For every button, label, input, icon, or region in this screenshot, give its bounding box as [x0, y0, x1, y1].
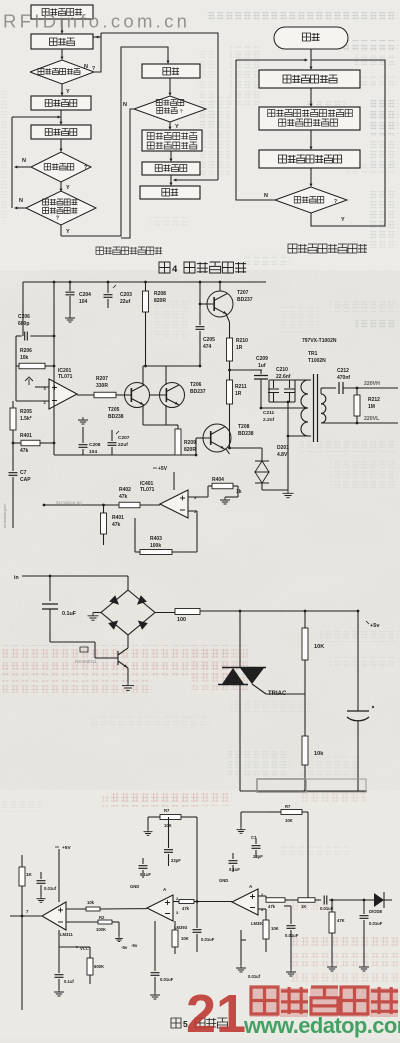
- transformer TR1 T1002N: [301, 338, 337, 442]
- svg-text:47k: 47k: [268, 904, 276, 909]
- label -5v stage2: [131, 943, 138, 948]
- stage3 central vertical: [307, 812, 309, 899]
- wire op-amp2 output left: [159, 504, 161, 505]
- svg-text:R7: R7: [164, 808, 170, 813]
- svg-text:1.5k*: 1.5k*: [20, 416, 32, 422]
- svg-text:0.1uF: 0.1uF: [140, 872, 151, 877]
- capacitor 0.01uF stage2 bottom: [151, 921, 174, 992]
- decision: key pressed?: [30, 60, 95, 84]
- wire N loop: [236, 60, 275, 200]
- capacitor electrolytic right: [347, 611, 374, 791]
- resistor 10K vertical stage2: [172, 921, 189, 954]
- svg-text:N: N: [123, 102, 127, 108]
- svg-text:104: 104: [89, 449, 97, 455]
- resistor R401b 47k: [101, 505, 125, 545]
- svg-text:TR1: TR1: [308, 351, 318, 357]
- flow box: close interrupt: [31, 34, 93, 49]
- svg-text:+5V: +5V: [62, 845, 71, 851]
- wire: [170, 151, 173, 162]
- capacitor C206 680p: [16, 314, 54, 341]
- svg-text:?: ?: [92, 66, 95, 72]
- svg-text:R210: R210: [236, 338, 248, 344]
- wire input top: [22, 575, 128, 590]
- wire T207 base branch: [199, 282, 207, 325]
- svg-text:220VL: 220VL: [364, 416, 380, 422]
- svg-text:820R: 820R: [184, 447, 196, 453]
- svg-text:10k: 10k: [87, 900, 95, 905]
- zener D201 4.8V bidirectional: [230, 445, 290, 490]
- resistor R208 820R: [143, 282, 167, 367]
- wire Y loop: [311, 60, 385, 226]
- svg-text:10k: 10k: [314, 751, 324, 757]
- transistor T207 BD237: [207, 290, 253, 317]
- svg-text:R7: R7: [285, 804, 291, 809]
- series capacitor 0.01uF: [320, 896, 374, 912]
- wire: [60, 139, 63, 152]
- svg-text:C206: C206: [18, 314, 30, 320]
- capacitor 0.01uF right: [360, 900, 383, 964]
- capacitor C209 1uf: [254, 356, 268, 409]
- svg-text:+5V: +5V: [158, 466, 168, 472]
- svg-text:R209: R209: [184, 440, 196, 446]
- svg-text:DIODE: DIODE: [369, 909, 382, 914]
- svg-text:600K: 600K: [94, 964, 104, 969]
- ground stage2 bottom: [150, 992, 160, 999]
- wire Y down: [60, 182, 71, 192]
- label GND stage3: [219, 878, 228, 883]
- resistor R210 1R: [226, 314, 248, 380]
- svg-text:10K: 10K: [271, 926, 279, 931]
- svg-text:R208: R208: [154, 291, 166, 297]
- resistor R401 47k: [12, 433, 54, 454]
- right flowchart (transponder software): [236, 27, 385, 226]
- resistor R2 100K: [66, 915, 119, 936]
- left return rail: [11, 117, 13, 208]
- svg-text:C210: C210: [276, 367, 288, 373]
- wire base network: [50, 642, 118, 658]
- svg-text:1K: 1K: [301, 904, 306, 909]
- wire Y down: [61, 84, 71, 96]
- wire N loop to box2: [84, 33, 101, 72]
- svg-text:100: 100: [177, 617, 186, 623]
- wire bottom bus: [240, 790, 367, 793]
- wire pin2 line stage3: [258, 908, 266, 910]
- wire left vertical: [239, 611, 241, 791]
- capacitor 0.1uF input: [42, 576, 77, 642]
- ground stage1 bottom: [54, 989, 64, 996]
- svg-text:Y: Y: [66, 185, 70, 191]
- svg-text:1M: 1M: [368, 404, 375, 410]
- svg-text:RxHEB011: RxHEB011: [75, 659, 97, 664]
- svg-text:GND: GND: [219, 878, 228, 883]
- svg-text:R2: R2: [99, 915, 105, 920]
- decision: done transmitting?: [31, 152, 91, 182]
- svg-text:0.1uF: 0.1uF: [229, 867, 240, 872]
- left margin tiny vertical text: [3, 503, 7, 528]
- left vertical rail: [21, 855, 23, 1010]
- wire N loop down: [121, 102, 134, 238]
- flow box: output display: [142, 162, 200, 175]
- svg-text:R205: R205: [20, 409, 32, 415]
- decision: done transmitting?: [275, 187, 347, 213]
- svg-text:4.8V: 4.8V: [277, 452, 288, 458]
- label +5v: [366, 621, 380, 629]
- watermark www.edatop.com green: [243, 1013, 400, 1038]
- terminator: start: [274, 27, 348, 49]
- caption: transponder software flowchart: [288, 244, 367, 253]
- svg-text:22uf: 22uf: [120, 299, 131, 305]
- svg-text:N: N: [19, 198, 23, 204]
- svg-text:shandangxin: shandangxin: [3, 503, 7, 528]
- svg-text:?: ?: [84, 165, 87, 171]
- flow box: transmit code bitwise: [259, 150, 360, 168]
- wire output node to C209: [230, 369, 263, 371]
- svg-text:-5v: -5v: [121, 945, 128, 950]
- wire T208 emitter down: [226, 429, 231, 454]
- svg-text:RFIDinfo.com.cn: RFIDinfo.com.cn: [3, 11, 190, 32]
- wire lower horizontal bus: [54, 454, 196, 456]
- ground at R2: [115, 936, 128, 950]
- ground at R7b: [237, 827, 246, 833]
- resistor 47K vertical: [329, 900, 345, 964]
- transistor T208 BD238: [203, 424, 254, 452]
- caption: reader software flowchart: [96, 247, 162, 254]
- svg-text:47k: 47k: [20, 448, 29, 454]
- capacitor 0.01uf at U1: [37, 872, 57, 896]
- svg-text:47k: 47k: [112, 522, 121, 528]
- wire: [310, 168, 313, 187]
- svg-text:T207: T207: [237, 290, 249, 296]
- svg-text:470nf: 470nf: [337, 375, 350, 381]
- bridge rectifier: [101, 590, 155, 635]
- svg-text:?: ?: [334, 199, 337, 205]
- svg-text:R212: R212: [368, 397, 380, 403]
- capacitor C210 22.6nf parallel pair: [268, 367, 311, 403]
- svg-text:T205: T205: [108, 407, 120, 413]
- wire: [310, 88, 313, 107]
- decision: parity consistent?: [26, 191, 96, 225]
- flow box: init: [31, 5, 93, 19]
- wire Y bottom to store-branch: [61, 47, 170, 236]
- svg-text:C211: C211: [263, 410, 275, 416]
- resistor R211 1R: [227, 380, 247, 429]
- svg-text:LM311: LM311: [60, 932, 73, 937]
- circuit3 comparator chain: [10, 779, 392, 1010]
- right top loop wire: [101, 33, 218, 180]
- bleed table boxes above circuit3: [257, 779, 366, 792]
- resistor R205 1.5k: [10, 401, 32, 443]
- svg-text:0.01uF: 0.01uF: [201, 937, 215, 942]
- resistor R404 1k: [188, 477, 242, 497]
- svg-text:BD238: BD238: [108, 414, 124, 420]
- label TRIAC: [268, 691, 287, 697]
- svg-text:330R: 330R: [96, 383, 108, 389]
- svg-text:R207: R207: [96, 376, 108, 382]
- svg-text:C212: C212: [337, 368, 349, 374]
- stage3 bottom left ground: [236, 930, 261, 979]
- svg-text:T208: T208: [238, 424, 250, 430]
- svg-text:0.01uf: 0.01uf: [44, 886, 57, 891]
- resistor R207 330R: [77, 376, 125, 398]
- circuit1 main schematic: [3, 281, 398, 555]
- wire N to left rail: [14, 198, 26, 210]
- svg-text:LM393: LM393: [174, 925, 188, 930]
- label +5V stage1: [55, 845, 71, 851]
- wire U1 bottom VCC: [59, 930, 89, 951]
- TRIAC symbol: [218, 668, 305, 737]
- wire left drop: [22, 282, 24, 336]
- svg-text:Y: Y: [66, 89, 70, 95]
- svg-text:BD237: BD237: [237, 297, 253, 303]
- svg-text:Y: Y: [66, 229, 70, 235]
- wire N to left rail: [14, 158, 31, 169]
- flow box: store: [142, 64, 200, 78]
- resistor R209 820R: [166, 425, 196, 456]
- svg-text:T1002N: T1002N: [308, 358, 326, 364]
- svg-text:N: N: [264, 193, 268, 199]
- left flowchart (reader software): [12, 5, 218, 238]
- svg-text:T206: T206: [190, 382, 202, 388]
- svg-text:C204: C204: [79, 292, 91, 298]
- ground main: [283, 490, 294, 498]
- wire mid vertical bus: [53, 282, 56, 455]
- stage2 central vertical: [196, 817, 199, 903]
- ground stage3 mid: [286, 969, 296, 976]
- svg-text:100k: 100k: [150, 543, 161, 549]
- svg-text:4: 4: [172, 264, 178, 275]
- svg-text:0.01uF: 0.01uF: [369, 921, 383, 926]
- wire U2 output left: [100, 908, 147, 910]
- svg-text:TRIAC: TRIAC: [268, 691, 287, 697]
- watermark red CJK characters: [250, 987, 398, 1017]
- resistor 10K upper: [302, 611, 324, 694]
- svg-text:BD238: BD238: [238, 431, 254, 437]
- resistor R212 1M: [354, 388, 380, 423]
- svg-text:C209: C209: [256, 356, 268, 362]
- capacitor C7 CAP: [9, 443, 32, 528]
- wire Y down: [169, 122, 180, 130]
- ground small: [37, 896, 46, 902]
- svg-text:680p: 680p: [18, 321, 29, 327]
- wire: [61, 19, 64, 34]
- svg-text:47k: 47k: [182, 906, 190, 911]
- ground at R7: [144, 829, 153, 835]
- capacitor 0.01uF stage2 mid: [193, 902, 215, 953]
- ground at R404: [220, 497, 238, 504]
- svg-text:1R: 1R: [236, 345, 243, 351]
- svg-text:21: 21: [186, 984, 246, 1038]
- caption fig5: [171, 1018, 227, 1029]
- flow box: read keyboard state: [259, 70, 360, 88]
- center tap wire and C211 label: [261, 408, 308, 423]
- svg-text:1uf: 1uf: [258, 363, 266, 369]
- capacitor 0.1uf bottom: [55, 947, 75, 989]
- svg-text:100K: 100K: [96, 927, 106, 932]
- capacitor 0.1uF stage2: [139, 858, 152, 878]
- svg-text:C7: C7: [20, 470, 27, 476]
- svg-text:R206: R206: [20, 348, 32, 354]
- wire: [61, 49, 64, 60]
- ground under transistor: [122, 682, 134, 690]
- resistor R206 10k: [16, 348, 54, 369]
- svg-text:Y: Y: [175, 124, 179, 130]
- svg-text:CAP: CAP: [20, 477, 31, 483]
- offset trim symbol on pin3: [25, 377, 33, 385]
- svg-text:820R: 820R: [154, 298, 166, 304]
- svg-text:R401: R401: [20, 433, 32, 439]
- ground at bridge left: [88, 613, 102, 621]
- svg-text:+5v: +5v: [370, 623, 380, 629]
- flow box: receive code: [31, 125, 91, 139]
- svg-text:2.2nf: 2.2nf: [263, 417, 275, 423]
- wire output left: [10, 915, 42, 918]
- diode DIODE: [369, 892, 392, 914]
- gray stamp text: [56, 500, 82, 505]
- svg-text:D201: D201: [277, 445, 289, 451]
- svg-text:0.1uF: 0.1uF: [62, 611, 77, 617]
- svg-text:10K: 10K: [285, 818, 293, 823]
- svg-text:R402: R402: [119, 487, 131, 493]
- wire T207 collector to rail: [219, 282, 221, 291]
- svg-text:N: N: [22, 158, 26, 164]
- svg-text:47k: 47k: [119, 494, 128, 500]
- svg-text:220VH: 220VH: [364, 381, 380, 387]
- svg-text:R211: R211: [235, 384, 247, 390]
- stage3 resistor R7b 10K: [241, 804, 308, 827]
- svg-text:47K: 47K: [337, 918, 345, 923]
- svg-text:C203: C203: [120, 292, 132, 298]
- flow box: encode state with parity flag: [259, 107, 360, 130]
- op-amp U3 LM393: [232, 884, 265, 926]
- svg-text:GND: GND: [130, 884, 139, 889]
- svg-text:22uf: 22uf: [118, 442, 128, 448]
- label GND: [130, 884, 139, 889]
- svg-text:1K: 1K: [26, 872, 33, 877]
- watermark RFIDinfo.com.cn: [3, 11, 190, 32]
- wire with left merge: [12, 110, 63, 125]
- circuit2 TRIAC schematic: [14, 575, 380, 793]
- svg-text:0.01uF: 0.01uF: [160, 977, 174, 982]
- svg-text:10K: 10K: [314, 644, 324, 650]
- svg-text:?: ?: [180, 109, 183, 114]
- feedback wires around IC201: [16, 335, 55, 401]
- wire with merge: [236, 49, 313, 70]
- svg-text:-5v: -5v: [131, 943, 138, 948]
- resistor 1K stage3: [298, 898, 321, 909]
- grounds right pair: [327, 964, 369, 971]
- svg-text:R404: R404: [212, 477, 224, 483]
- capacitor 0.1uF stage3: [229, 853, 241, 872]
- wire: [310, 130, 313, 150]
- resistor 600K: [59, 947, 104, 984]
- transistor T205 BD238: [108, 383, 150, 421]
- svg-text:?: ?: [56, 216, 59, 222]
- resistor 47k stage2: [173, 900, 232, 912]
- wire top supply rail: [23, 281, 266, 283]
- stage2 resistor R7 10K: [148, 808, 197, 829]
- capacitor 0.01uF stage3 mid: [284, 906, 299, 969]
- svg-text:10K: 10K: [164, 823, 172, 828]
- watermark 21 red: [186, 984, 246, 1043]
- svg-text:TL071: TL071: [58, 374, 73, 380]
- resistor R403 100k: [135, 511, 197, 555]
- svg-text:22pF: 22pF: [253, 854, 263, 859]
- ground below C204: [65, 315, 75, 322]
- capacitor C208 104: [79, 427, 101, 455]
- wire to zener and ground bus: [287, 402, 308, 490]
- capacitor C7 22pF stage3: [251, 835, 263, 859]
- resistor 100: [155, 609, 200, 624]
- flow box: compare three numbers: [142, 130, 202, 151]
- svg-text:www.edatop.com: www.edatop.com: [243, 1013, 400, 1038]
- svg-text:10K: 10K: [181, 936, 189, 941]
- svg-text:797VX-T1002N: 797VX-T1002N: [302, 338, 337, 344]
- svg-text:22pF: 22pF: [171, 858, 181, 863]
- svg-text:C208: C208: [89, 442, 101, 448]
- svg-text:C207: C207: [118, 435, 130, 441]
- svg-text:51mabou-ag: 51mabou-ag: [56, 500, 82, 505]
- op-amp U2 LM393: [147, 887, 188, 930]
- wire top bus of triac section: [200, 610, 359, 613]
- resistor R402 47k: [43, 487, 160, 508]
- resistor 10K vertical stage3: [263, 909, 279, 952]
- wire T208 base: [195, 438, 204, 456]
- resistor 1K: [19, 867, 33, 886]
- wires around T205/T206: [143, 366, 166, 425]
- svg-text:22.6nf: 22.6nf: [276, 374, 291, 380]
- node dots on rail: [53, 281, 222, 284]
- label in: [14, 575, 19, 581]
- wire with right merge: [170, 175, 219, 186]
- svg-text:in: in: [14, 575, 19, 581]
- svg-text:10k: 10k: [20, 355, 29, 361]
- decision: third keypress?: [134, 96, 206, 122]
- resistor 10k stage1: [66, 900, 100, 911]
- svg-text:0.01uf: 0.01uf: [248, 974, 261, 979]
- svg-text:TL071: TL071: [140, 487, 155, 493]
- wire: [169, 78, 172, 96]
- capacitor C203 22uf electrolytic: [104, 282, 133, 308]
- svg-text:BD237: BD237: [190, 389, 206, 395]
- svg-text:R401: R401: [112, 515, 124, 521]
- resistor 47k stage3: [258, 896, 298, 909]
- flow box: return: [140, 186, 200, 199]
- svg-text:C205: C205: [203, 337, 215, 343]
- svg-text:1k: 1k: [236, 489, 242, 495]
- svg-text:0.1uf: 0.1uf: [64, 979, 74, 984]
- wire +5V to IC401: [173, 472, 175, 490]
- capacitor C207 22uf: [108, 430, 130, 455]
- svg-text:0.01uF: 0.01uF: [285, 933, 299, 938]
- label 220VH: [364, 381, 380, 387]
- wire 220VL line: [321, 416, 398, 424]
- svg-text:1R: 1R: [235, 391, 242, 397]
- resistor 10k lower: [302, 736, 324, 791]
- caption: fig4 work flowchart: [159, 262, 246, 275]
- capacitor C204 104: [66, 282, 92, 315]
- transistor T206 BD237: [160, 382, 206, 408]
- svg-text:104: 104: [79, 299, 88, 305]
- ground above C208: [78, 417, 88, 424]
- svg-text:R403: R403: [150, 536, 162, 542]
- op-amp IC201 TL071: [44, 368, 78, 409]
- op-amp U1 LM311: [26, 902, 73, 937]
- svg-text:N: N: [84, 64, 88, 70]
- gray stamp part number: [75, 659, 97, 664]
- label +5V: [153, 466, 168, 472]
- capacitor C205 474: [146, 327, 216, 368]
- transistor driver: [118, 635, 128, 682]
